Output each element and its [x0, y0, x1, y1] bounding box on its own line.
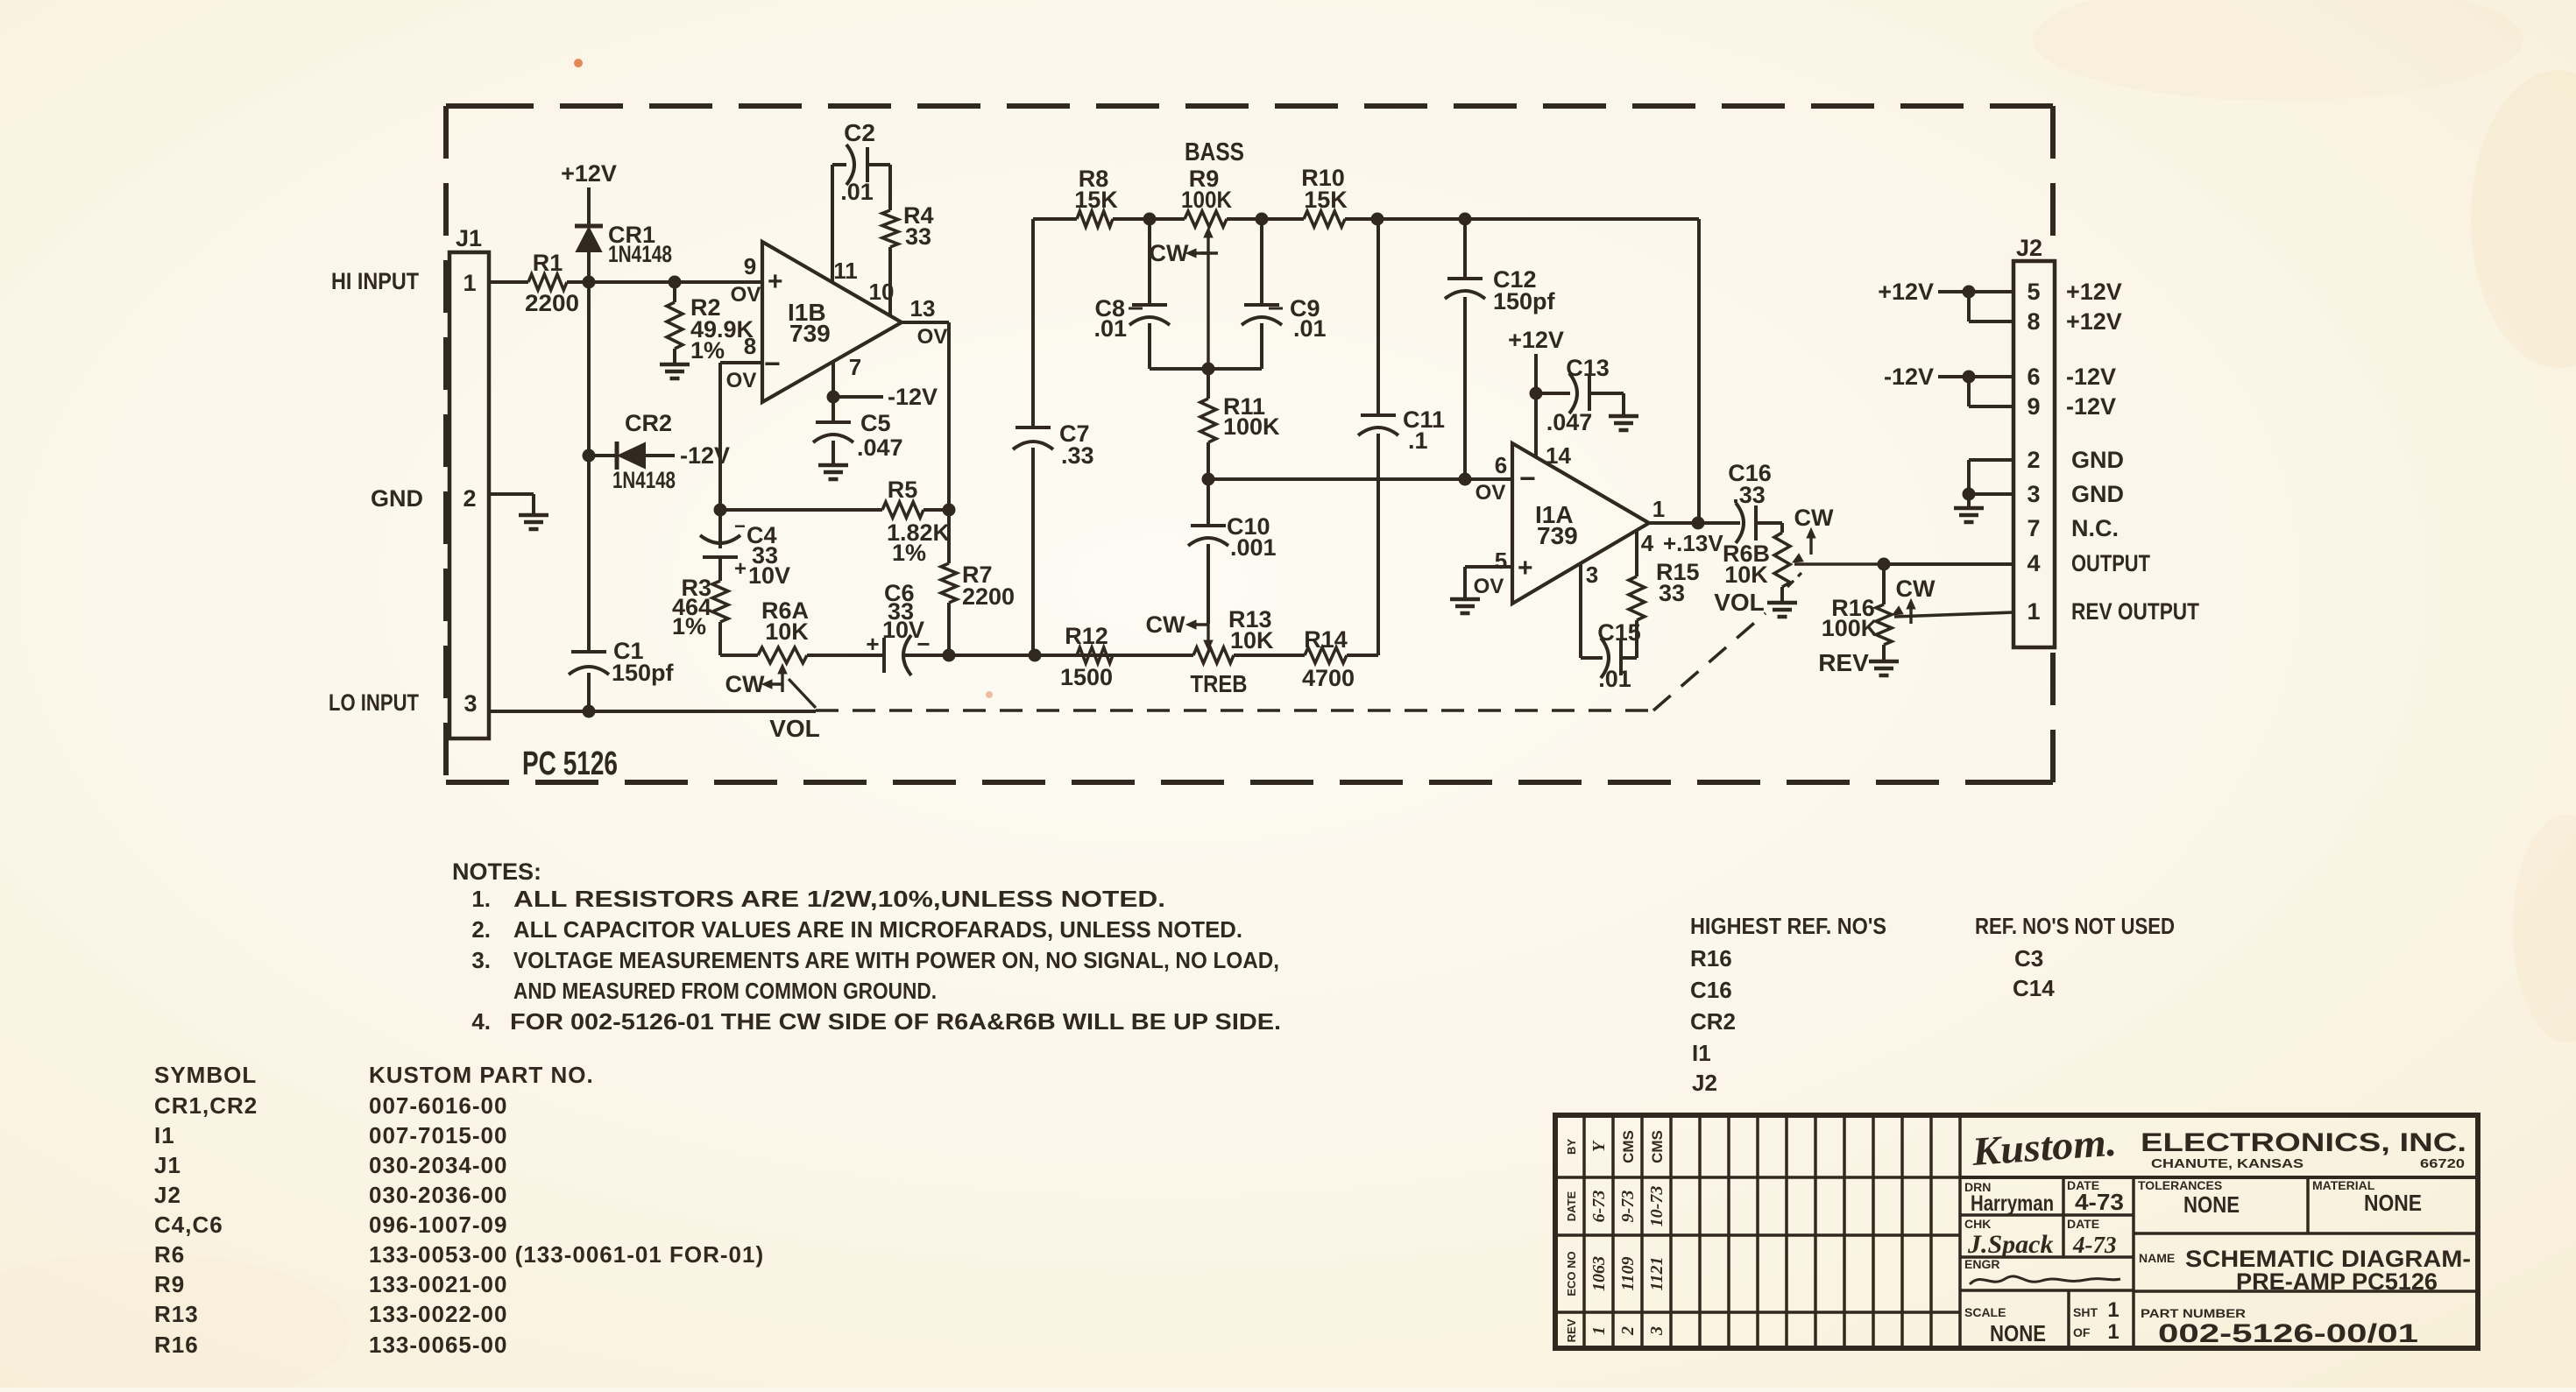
date cell 1 — [2067, 1178, 2124, 1215]
svg-text:1109: 1109 — [1618, 1257, 1638, 1291]
svg-text:5: 5 — [2027, 279, 2040, 305]
svg-text:CMS: CMS — [1649, 1130, 1666, 1163]
svg-text:OF: OF — [2073, 1325, 2091, 1339]
svg-text:GND: GND — [371, 485, 423, 512]
wire R9-R10 — [1227, 213, 1304, 226]
svg-text:TOLERANCES: TOLERANCES — [2138, 1178, 2222, 1192]
svg-text:VOL: VOL — [1714, 589, 1765, 616]
resistor R2 49.9K — [667, 282, 754, 364]
potentiometer R9 100K BASS — [1150, 166, 1233, 369]
svg-text:C3: C3 — [2014, 945, 2043, 972]
svg-text:9: 9 — [744, 253, 756, 279]
svg-text:R1: R1 — [533, 250, 563, 276]
svg-text:ECO NO: ECO NO — [1565, 1251, 1578, 1296]
svg-text:1%: 1% — [892, 540, 926, 566]
svg-text:SYMBOL: SYMBOL — [154, 1062, 257, 1088]
svg-text:150pf: 150pf — [612, 660, 675, 686]
svg-text:+12V: +12V — [1878, 279, 1934, 305]
connector J2 — [2013, 235, 2055, 647]
svg-text:6: 6 — [1495, 452, 1507, 478]
wire J1-2 to ground — [489, 494, 534, 515]
svg-text:AND MEASURED FROM COMMON GROUN: AND MEASURED FROM COMMON GROUND. — [513, 978, 937, 1004]
svg-text:.047: .047 — [857, 435, 903, 461]
wire C2 to R4 — [867, 165, 890, 210]
svg-text:2: 2 — [463, 485, 476, 512]
tolerances cell — [2138, 1178, 2240, 1218]
bass wiper bus — [1150, 363, 1262, 376]
wire pin11 up — [832, 165, 846, 282]
svg-text:CHANUTE, KANSAS: CHANUTE, KANSAS — [2151, 1156, 2304, 1171]
engr signature — [1964, 1257, 2120, 1284]
capacitor C9 .01 — [1242, 219, 1327, 369]
wire C6 to R7 node — [903, 649, 956, 662]
resistor R3 464 1% — [672, 557, 728, 655]
potentiometer R6B 10K VOL — [1714, 505, 1884, 616]
svg-text:N.C.: N.C. — [2071, 515, 2119, 541]
svg-text:2200: 2200 — [525, 290, 579, 316]
svg-text:100K: 100K — [1181, 187, 1232, 213]
svg-text:3.: 3. — [471, 947, 491, 973]
wire +12V to CR1 — [587, 187, 591, 226]
svg-text:NONE: NONE — [2183, 1191, 2240, 1218]
svg-text:HIGHEST REF. NO'S: HIGHEST REF. NO'S — [1690, 913, 1886, 939]
pin3 wire — [1581, 563, 1603, 658]
svg-text:4.: 4. — [471, 1008, 491, 1035]
capacitor C7 .33 — [1013, 420, 1094, 655]
svg-text:.001: .001 — [1230, 534, 1277, 561]
svg-text:HI INPUT: HI INPUT — [331, 268, 419, 294]
svg-text:R14: R14 — [1304, 626, 1348, 653]
svg-text:096-1007-09: 096-1007-09 — [369, 1212, 507, 1238]
svg-text:−: − — [734, 515, 746, 537]
svg-text:3: 3 — [1647, 1326, 1667, 1336]
svg-text:DATE: DATE — [2067, 1217, 2099, 1231]
wire R4 to pin10 — [888, 247, 892, 315]
svg-text:1N4148: 1N4148 — [612, 467, 676, 493]
capacitor C2 .01 — [840, 119, 875, 205]
resistor R15 33 — [1629, 530, 1700, 620]
svg-text:13: 13 — [910, 295, 936, 322]
ground at J1-2 — [519, 515, 548, 529]
svg-text:+.13V: +.13V — [1663, 530, 1723, 556]
ground below R2 — [660, 364, 690, 378]
svg-text:133-0065-00: 133-0065-00 — [369, 1332, 507, 1358]
svg-text:VOLTAGE MEASUREMENTS ARE WITH: VOLTAGE MEASUREMENTS ARE WITH POWER ON, … — [513, 947, 1279, 973]
svg-text:NOTES:: NOTES: — [452, 859, 541, 885]
svg-text:OUTPUT: OUTPUT — [2071, 550, 2150, 576]
highest ref numbers list — [1690, 913, 1886, 1096]
svg-text:1N4148: 1N4148 — [608, 241, 672, 267]
svg-text:−: − — [1519, 463, 1536, 494]
bass row left + C7 drop — [1033, 219, 1077, 427]
wire C15 to R15 — [1621, 620, 1637, 658]
svg-text:007-7015-00: 007-7015-00 — [369, 1122, 507, 1148]
svg-text:VOL: VOL — [769, 715, 820, 742]
capacitor C10 .001 — [1188, 479, 1277, 624]
svg-text:CR1,CR2: CR1,CR2 — [154, 1092, 258, 1119]
drn cell — [1964, 1180, 2054, 1216]
svg-text:1063: 1063 — [1589, 1256, 1609, 1291]
svg-text:OV: OV — [1474, 575, 1504, 598]
potentiometer R13 10K TREB — [1146, 606, 1275, 697]
svg-text:9: 9 — [2027, 393, 2040, 420]
svg-text:4: 4 — [2027, 550, 2040, 576]
note 3b — [513, 978, 937, 1004]
wire R14 to C11 bottom — [1347, 654, 1378, 657]
resistor R5 1.82K — [720, 477, 951, 566]
wire R1 to opamp pin9 — [567, 280, 762, 284]
wire bass row to output node — [1697, 219, 1701, 523]
capacitor C13 .047 — [1536, 355, 1624, 435]
svg-text:I1: I1 — [1692, 1040, 1711, 1066]
svg-text:OV: OV — [731, 283, 761, 307]
svg-text:030-2036-00: 030-2036-00 — [369, 1182, 507, 1208]
svg-text:C15: C15 — [1597, 619, 1641, 646]
Kustom logo — [1970, 1120, 2118, 1174]
wire R3 to R6A — [720, 654, 758, 657]
wire R10 to output corner — [1345, 213, 1699, 226]
capacitor C16 .33 — [1728, 460, 1772, 543]
svg-text:PC 5126: PC 5126 — [522, 745, 618, 782]
title block frame — [1555, 1115, 2478, 1348]
label +.13V — [1663, 530, 1723, 556]
svg-text:1%: 1% — [672, 613, 706, 639]
svg-text:REF. NO'S NOT USED: REF. NO'S NOT USED — [1975, 913, 2175, 939]
svg-text:-12V: -12V — [680, 442, 730, 469]
svg-text:J2: J2 — [2016, 235, 2042, 261]
label PC 5126 — [522, 745, 618, 782]
diode CR1 1N4148 — [575, 222, 672, 282]
svg-text:REV: REV — [1818, 649, 1869, 676]
ref numbers not used list — [1975, 913, 2175, 1001]
svg-text:R9: R9 — [154, 1271, 185, 1297]
svg-text:+: + — [1518, 554, 1533, 583]
svg-text:15K: 15K — [1304, 187, 1348, 213]
svg-text:R6: R6 — [154, 1241, 185, 1268]
title block kustom area lines — [1960, 1177, 2478, 1348]
label LO INPUT — [329, 689, 419, 716]
PC board dashed outline — [446, 106, 2053, 782]
svg-text:+: + — [734, 557, 747, 581]
svg-text:4-73: 4-73 — [2075, 1189, 2124, 1215]
svg-text:007-6016-00: 007-6016-00 — [369, 1092, 507, 1119]
op-amp I1B 739 — [726, 242, 948, 402]
wire I1B output down — [902, 322, 949, 510]
note 1 — [471, 886, 1165, 912]
wire pin7 down — [827, 362, 884, 404]
svg-text:J2: J2 — [1692, 1070, 1717, 1096]
svg-text:10V: 10V — [882, 617, 924, 643]
svg-text:CW: CW — [1150, 240, 1189, 266]
svg-text:9-73: 9-73 — [1618, 1191, 1638, 1223]
capacitor C15 .01 — [1597, 619, 1641, 692]
svg-text:.01: .01 — [1093, 315, 1127, 342]
GND pins J2 — [1954, 460, 2013, 522]
svg-text:133-0022-00: 133-0022-00 — [369, 1301, 507, 1327]
svg-text:66720: 66720 — [2420, 1156, 2465, 1171]
svg-text:C13: C13 — [1566, 355, 1610, 381]
svg-text:R16: R16 — [1690, 945, 1732, 972]
svg-text:4-73: 4-73 — [2072, 1232, 2117, 1258]
svg-text:1: 1 — [1589, 1326, 1609, 1335]
svg-text:030-2034-00: 030-2034-00 — [369, 1152, 507, 1178]
svg-text:CW: CW — [1794, 505, 1834, 531]
svg-text:C2: C2 — [844, 119, 875, 146]
power +12V label — [561, 160, 617, 187]
svg-text:10K: 10K — [765, 618, 809, 645]
node R5/R7/output — [943, 504, 956, 517]
svg-text:1121: 1121 — [1647, 1257, 1667, 1291]
material cell — [2312, 1178, 2422, 1216]
svg-text:133-0021-00: 133-0021-00 — [369, 1271, 507, 1297]
note 3 — [471, 947, 1279, 973]
svg-text:1.: 1. — [471, 886, 491, 912]
svg-text:LO INPUT: LO INPUT — [329, 689, 419, 716]
svg-text:14: 14 — [1546, 442, 1571, 469]
svg-text:CMS: CMS — [1620, 1130, 1637, 1163]
note 4 — [471, 1008, 1281, 1035]
ground below R6B — [1767, 603, 1797, 617]
svg-text:-12V: -12V — [1884, 364, 1934, 390]
wire J1-1 to R1 — [489, 280, 528, 284]
name cell — [2139, 1246, 2471, 1295]
pin5 stub and ground — [1450, 567, 1512, 613]
diode CR2 1N4148 — [589, 410, 730, 493]
svg-text:10K: 10K — [1230, 627, 1274, 654]
scale cell — [1964, 1305, 2046, 1346]
node R2 tap — [669, 276, 682, 289]
node output to J2-4 — [1878, 558, 2014, 571]
svg-text:TREB: TREB — [1191, 670, 1248, 697]
svg-text:PRE-AMP PC5126: PRE-AMP PC5126 — [2236, 1268, 2438, 1295]
svg-text:7: 7 — [849, 354, 861, 380]
svg-text:J2: J2 — [154, 1182, 181, 1208]
svg-text:.1: .1 — [1408, 427, 1428, 454]
pin6 row wire — [1208, 477, 1512, 481]
svg-text:2: 2 — [1618, 1326, 1638, 1336]
note 2 — [471, 916, 1242, 943]
svg-text:.33: .33 — [1061, 442, 1094, 469]
svg-text:OV: OV — [917, 325, 948, 349]
svg-text:ALL CAPACITOR VALUES ARE IN MI: ALL CAPACITOR VALUES ARE IN MICROFARADS,… — [513, 916, 1242, 943]
wire pin14 — [1534, 393, 1538, 457]
svg-text:3: 3 — [464, 690, 477, 717]
svg-text:FOR 002-5126-01 THE CW SIDE OF: FOR 002-5126-01 THE CW SIDE OF R6A&R6B W… — [510, 1008, 1281, 1035]
resistor R12 1500 — [1060, 623, 1113, 690]
svg-text:NONE: NONE — [1990, 1320, 2046, 1346]
svg-text:15K: 15K — [1074, 187, 1118, 213]
svg-text:C16: C16 — [1690, 977, 1732, 1003]
svg-text:+12V: +12V — [561, 160, 617, 187]
off-board dashed line to VOL/REV — [816, 613, 1766, 710]
-12V feed to J2 — [1884, 364, 2013, 406]
svg-text:7: 7 — [2027, 515, 2040, 541]
svg-text:Y: Y — [1589, 1140, 1609, 1152]
svg-text:4: 4 — [1641, 530, 1654, 556]
svg-text:−: − — [764, 348, 781, 379]
svg-text:REV: REV — [1565, 1318, 1578, 1342]
svg-text:100K: 100K — [1822, 615, 1879, 641]
svg-text:R5: R5 — [888, 477, 918, 503]
svg-text:8: 8 — [744, 333, 756, 359]
svg-text:J1: J1 — [154, 1152, 181, 1178]
svg-text:.01: .01 — [1293, 315, 1327, 342]
ground at C13 — [1609, 416, 1638, 430]
svg-text:NAME: NAME — [2139, 1251, 2175, 1265]
ground below R16 — [1869, 661, 1899, 675]
notes heading — [452, 859, 541, 885]
svg-text:2.: 2. — [471, 916, 491, 943]
svg-text:.01: .01 — [1598, 666, 1631, 692]
svg-text:GND: GND — [2071, 447, 2124, 473]
revision grid — [1555, 1115, 1960, 1348]
svg-text:.33: .33 — [1732, 482, 1766, 508]
power +12V at I1A — [1508, 327, 1564, 400]
svg-text:1: 1 — [2107, 1298, 2119, 1322]
svg-text:SHT: SHT — [2073, 1305, 2098, 1319]
capacitor C12 150pf — [1445, 219, 1556, 479]
resistor R4 33 — [882, 202, 934, 250]
svg-text:C5: C5 — [860, 410, 891, 436]
svg-text:+: + — [768, 267, 783, 296]
svg-text:OV: OV — [1476, 481, 1506, 505]
svg-text:1%: 1% — [690, 337, 725, 364]
svg-text:CR2: CR2 — [625, 410, 672, 436]
svg-text:C4,C6: C4,C6 — [154, 1212, 223, 1238]
svg-text:J.Spack: J.Spack — [1967, 1230, 2054, 1259]
wire C1 to LO row — [583, 673, 596, 718]
symbol table — [154, 1062, 764, 1358]
svg-text:002-5126-00/01: 002-5126-00/01 — [2158, 1319, 2418, 1348]
label -12V at pin7 — [888, 384, 938, 410]
svg-text:1: 1 — [2027, 598, 2040, 625]
node R1/CR1 — [583, 276, 596, 289]
svg-text:10K: 10K — [1724, 562, 1768, 588]
svg-text:150pf: 150pf — [1493, 288, 1556, 314]
capacitor C5 .047 — [813, 397, 903, 464]
revision entries — [1565, 1130, 1667, 1342]
connector J1 — [449, 225, 489, 738]
svg-text:2: 2 — [2027, 447, 2040, 473]
svg-text:+12V: +12V — [2066, 279, 2122, 305]
capacitor C4 33 10V — [700, 510, 790, 589]
svg-text:R13: R13 — [154, 1301, 199, 1327]
capacitor C1 150pf — [569, 638, 675, 686]
capacitor C11 .1 — [1358, 219, 1445, 655]
svg-text:ELECTRONICS, INC.: ELECTRONICS, INC. — [2141, 1128, 2466, 1157]
svg-text:1: 1 — [2107, 1320, 2119, 1344]
svg-text:CW: CW — [725, 671, 765, 697]
svg-text:OV: OV — [726, 369, 757, 392]
J2 right labels — [2066, 279, 2199, 625]
capacitor C8 .01 — [1093, 219, 1170, 369]
ground below C5 — [818, 465, 848, 479]
svg-text:8: 8 — [2027, 308, 2040, 335]
svg-text:33: 33 — [1659, 580, 1685, 606]
svg-text:C14: C14 — [2013, 975, 2055, 1001]
resistor R14 4700 — [1302, 626, 1355, 691]
svg-text:3: 3 — [1586, 562, 1598, 588]
sht cell — [2073, 1298, 2120, 1344]
svg-text:+12V: +12V — [1508, 327, 1564, 353]
svg-text:3: 3 — [2027, 481, 2040, 507]
svg-text:1500: 1500 — [1060, 664, 1113, 690]
potentiometer R16 100K REV — [1818, 564, 2013, 676]
svg-text:BASS: BASS — [1185, 138, 1244, 166]
svg-text:+12V: +12V — [2066, 308, 2122, 335]
svg-text:10-73: 10-73 — [1647, 1186, 1667, 1227]
svg-text:1: 1 — [1652, 496, 1665, 522]
company name — [2141, 1128, 2466, 1171]
capacitor C6 33 10V — [866, 580, 930, 675]
date cell 2 — [2067, 1217, 2117, 1258]
wire J1-3 LO input row — [489, 710, 816, 713]
label BASS — [1185, 138, 1244, 166]
chk cell signature — [1964, 1217, 2054, 1259]
svg-text:ALL RESISTORS ARE 1/2W,10%,UNL: ALL RESISTORS ARE 1/2W,10%,UNLESS NOTED. — [513, 886, 1165, 912]
node C12/pin6 — [1459, 473, 1472, 486]
svg-text:GND: GND — [2071, 481, 2124, 507]
svg-text:R16: R16 — [154, 1332, 199, 1358]
resistor R11 100K — [1200, 369, 1280, 479]
svg-text:-12V: -12V — [2066, 393, 2116, 420]
label HI INPUT — [331, 268, 419, 294]
svg-text:NONE: NONE — [2364, 1190, 2422, 1216]
op-amp I1A 739 — [1474, 442, 1666, 604]
resistor R8 15K — [1074, 166, 1118, 227]
svg-text:.047: .047 — [1546, 409, 1593, 435]
svg-text:PART NUMBER: PART NUMBER — [2141, 1306, 2246, 1320]
resistor R1 — [525, 250, 579, 316]
svg-text:6-73: 6-73 — [1589, 1191, 1609, 1223]
svg-text:739: 739 — [1537, 522, 1578, 549]
svg-text:10V: 10V — [748, 562, 790, 589]
svg-text:I1: I1 — [154, 1122, 175, 1148]
svg-text:BY: BY — [1565, 1139, 1578, 1155]
svg-text:.01: .01 — [840, 179, 874, 205]
resistor R7 2200 — [941, 510, 1015, 655]
I1A output wire — [1649, 517, 1740, 530]
svg-text:5: 5 — [1495, 548, 1507, 574]
svg-text:739: 739 — [789, 320, 831, 347]
svg-text:KUSTOM PART NO.: KUSTOM PART NO. — [369, 1062, 594, 1088]
svg-text:-12V: -12V — [2066, 364, 2116, 390]
svg-text:CHK: CHK — [1964, 1217, 1991, 1231]
svg-text:100K: 100K — [1223, 413, 1280, 440]
svg-text:133-0053-00 (133-0061-01 FOR-0: 133-0053-00 (133-0061-01 FOR-01) — [369, 1241, 764, 1268]
svg-text:+: + — [866, 631, 879, 657]
svg-text:SCALE: SCALE — [1964, 1305, 2006, 1319]
svg-text:11: 11 — [833, 258, 858, 284]
svg-text:J1: J1 — [456, 225, 482, 251]
node pin6 row left — [1202, 473, 1215, 486]
part number cell — [2141, 1306, 2418, 1348]
wire CR1 node down to CR2 node — [587, 282, 591, 456]
node CR2 tap — [583, 449, 596, 463]
svg-text:-12V: -12V — [888, 384, 938, 410]
svg-text:6: 6 — [2027, 364, 2040, 390]
wire pin8 stub — [720, 363, 762, 510]
resistor R10 15K — [1301, 165, 1348, 227]
svg-text:1: 1 — [463, 270, 476, 296]
svg-text:33: 33 — [905, 223, 931, 250]
svg-text:4700: 4700 — [1302, 665, 1355, 691]
wire CR2 node down to C1 — [587, 456, 591, 652]
wire C16 to R6B — [1756, 523, 1782, 533]
svg-text:CR2: CR2 — [1690, 1008, 1736, 1035]
svg-text:CW: CW — [1146, 611, 1185, 638]
svg-text:Harryman: Harryman — [1971, 1191, 2054, 1216]
